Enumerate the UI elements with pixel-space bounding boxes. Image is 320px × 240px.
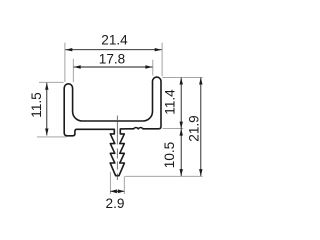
dimension 11.5 extension line top xyxy=(39,81,64,83)
dimension 2.9 extension line right xyxy=(123,177,125,195)
svg-text:10.5: 10.5 xyxy=(162,142,177,168)
dimension 17.8 label xyxy=(99,52,125,67)
profile outline (channel with foot and barbed leg) xyxy=(64,77,161,176)
dimension 21.4 extension line left xyxy=(64,43,66,82)
dimension 11.4 label (rotated) xyxy=(162,89,177,115)
dimension 10.5 label (rotated) xyxy=(162,142,177,168)
dimension 21.9 label (rotated) xyxy=(187,115,202,141)
right extension line middle xyxy=(163,128,184,130)
dimension 21.4 line with arrows xyxy=(65,48,161,51)
svg-text:2.9: 2.9 xyxy=(106,196,125,211)
svg-text:11.4: 11.4 xyxy=(162,89,177,115)
dimension 11.4 and 10.5 shared line xyxy=(180,78,183,177)
dimension 21.4 extension line right xyxy=(161,43,163,77)
dimension 2.9 label xyxy=(106,196,125,211)
svg-text:21.9: 21.9 xyxy=(187,115,202,141)
dimension 17.8 extension line right xyxy=(152,60,154,76)
dimension 11.5 label (rotated) xyxy=(29,92,44,117)
dimension 21.4 label xyxy=(101,32,128,47)
dimension 11.5 extension line bottom xyxy=(37,136,67,138)
dimension 2.9 line with arrows xyxy=(110,189,124,193)
dimension 17.8 extension line left xyxy=(72,59,74,82)
dimension 17.8 line with arrows xyxy=(74,65,153,68)
svg-text:21.4: 21.4 xyxy=(101,32,128,47)
dimension 21.9 line with arrows xyxy=(199,78,202,177)
dimension 2.9 extension line left xyxy=(109,172,111,194)
centerline of barbed leg xyxy=(116,116,118,181)
svg-text:11.5: 11.5 xyxy=(29,92,44,117)
dimension 11.5 line with arrows xyxy=(45,83,48,136)
right extension line top xyxy=(162,76,202,78)
svg-text:17.8: 17.8 xyxy=(99,52,125,67)
right extension line bottom xyxy=(125,175,203,177)
